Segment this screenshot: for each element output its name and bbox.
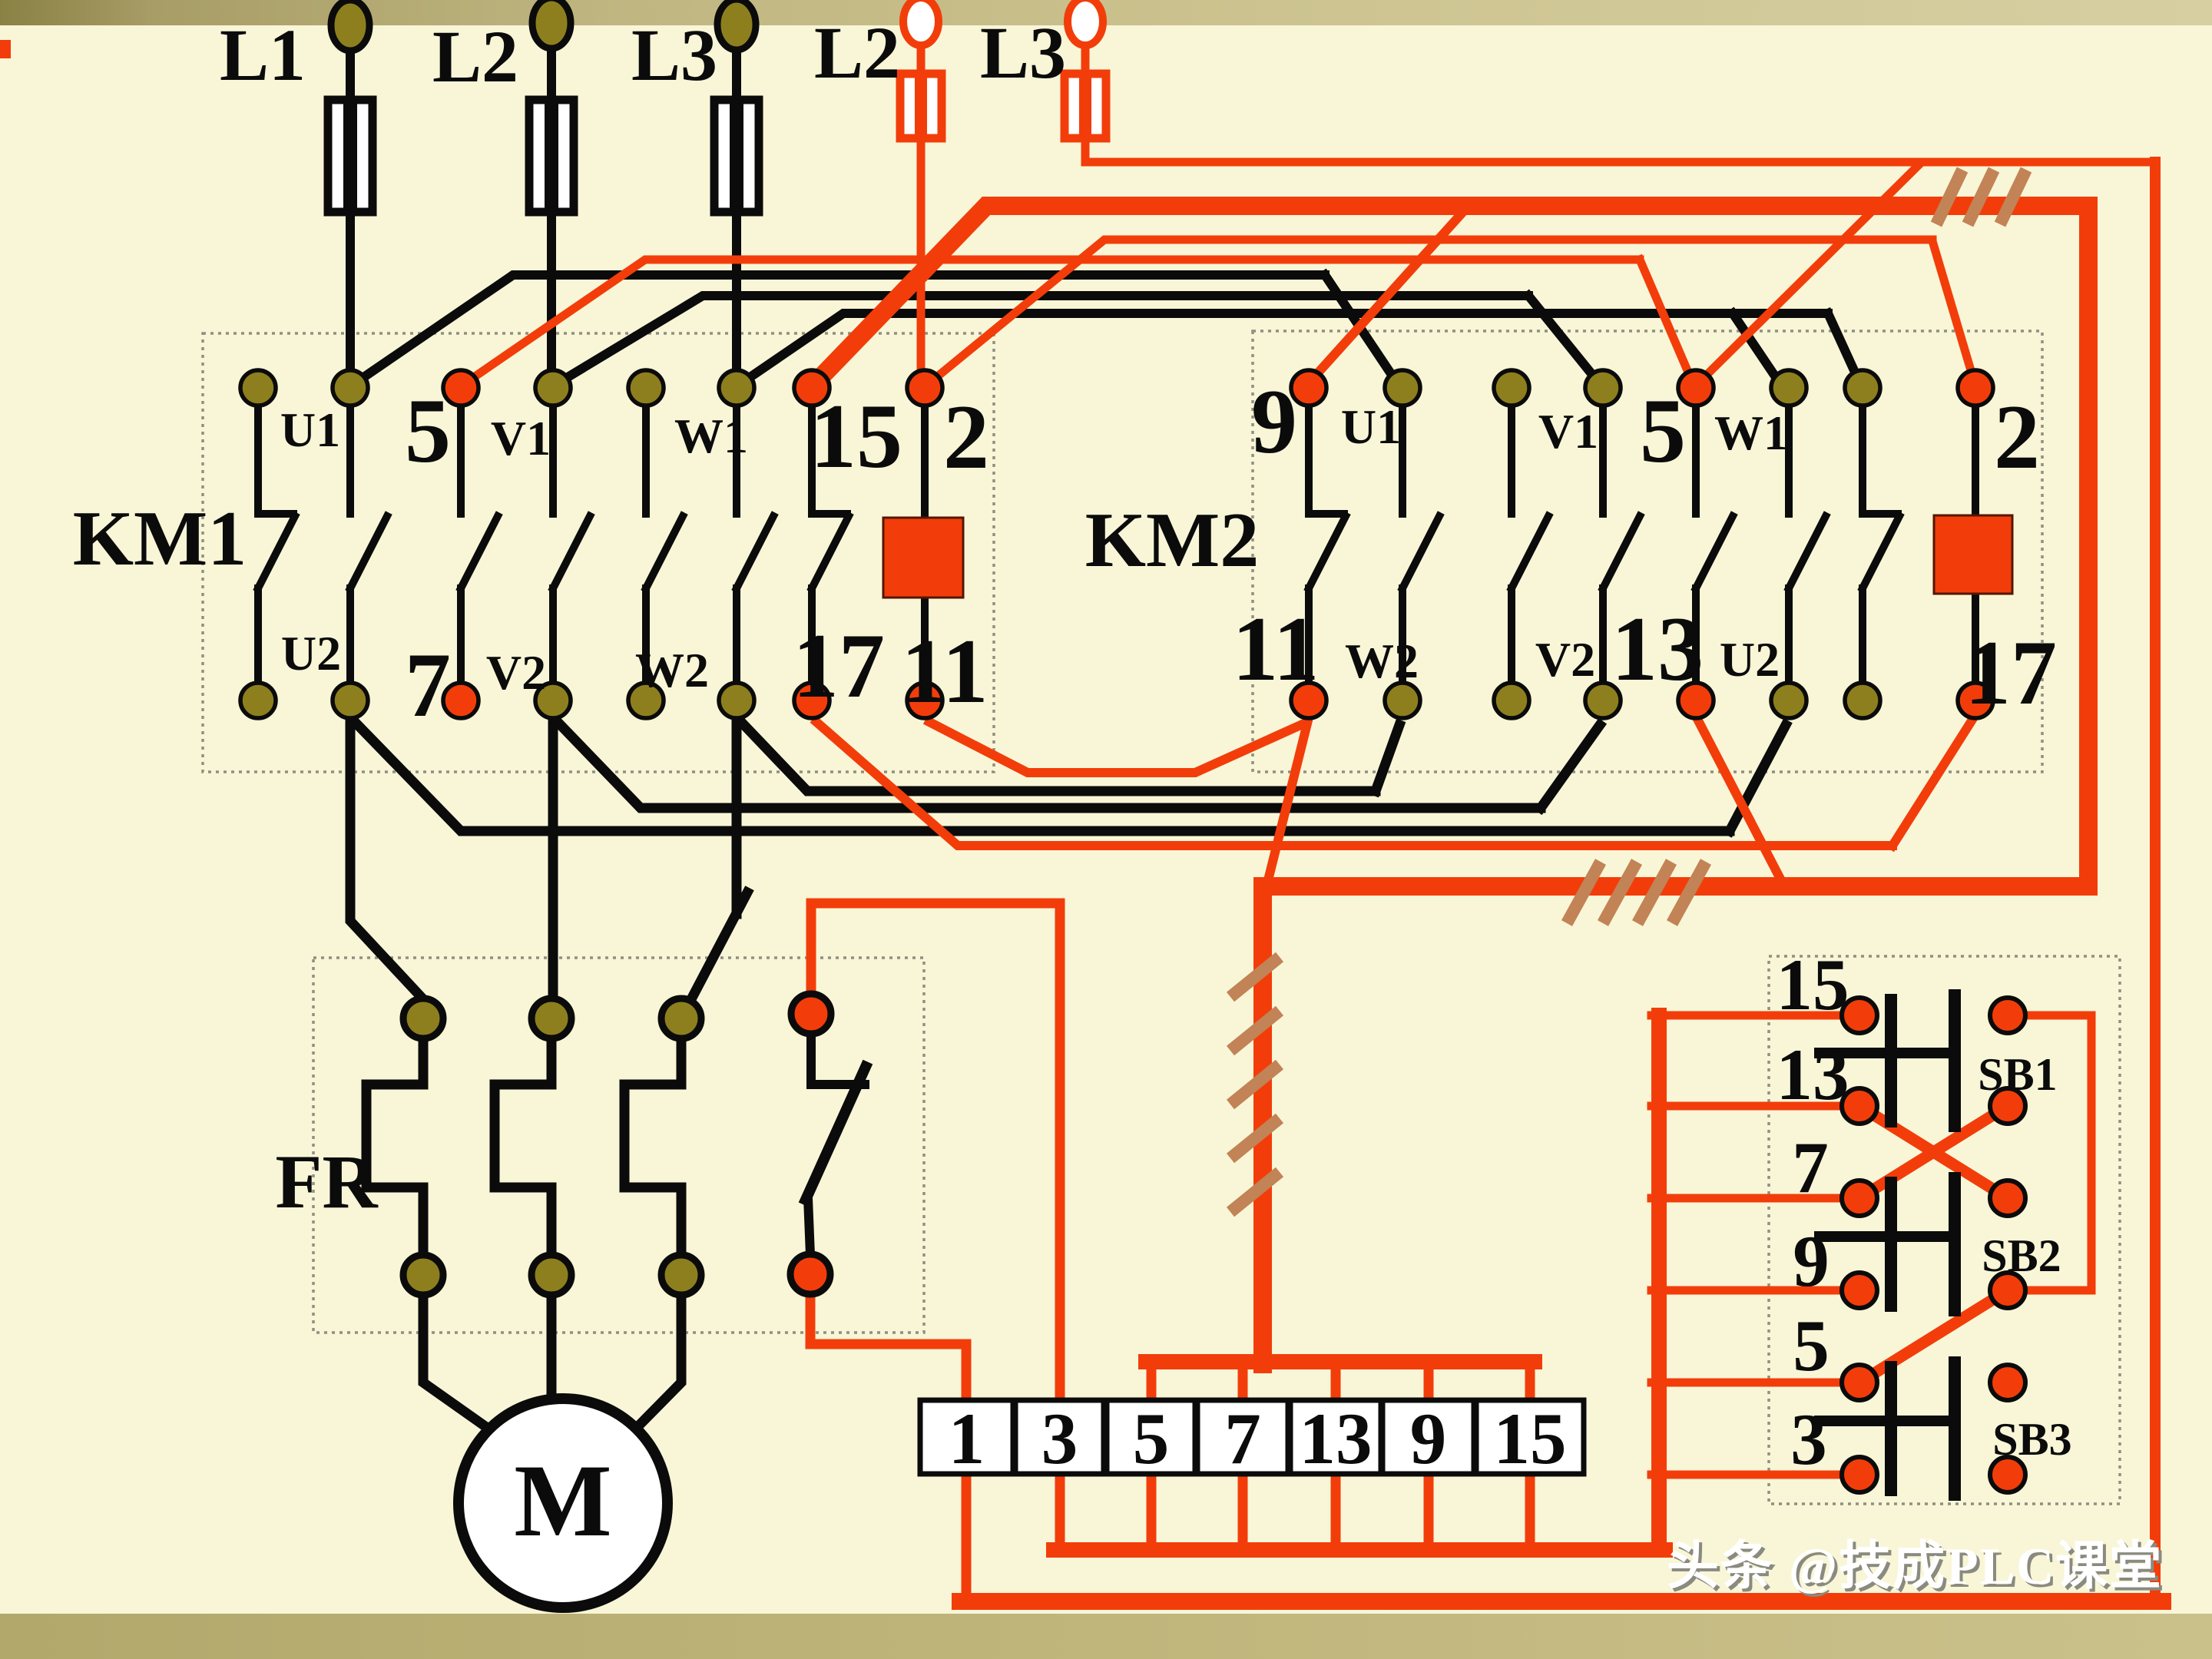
- svg-text:L2: L2: [814, 12, 900, 94]
- wire L1 phase down to fuse and U1: [346, 42, 355, 108]
- bundle header above terminal strip: [1146, 1354, 1535, 1369]
- contact pole KM1-2: [346, 408, 354, 514]
- svg-text:17: 17: [1965, 621, 2057, 724]
- hatch 5 marks on left bundle vertical: [1230, 957, 1280, 997]
- svg-text:SB3: SB3: [1992, 1414, 2071, 1465]
- svg-text:W1: W1: [1714, 406, 1788, 460]
- svg-text:2: 2: [1994, 386, 2040, 488]
- contact pole KM2-1: [1305, 408, 1313, 514]
- svg-text:KM1: KM1: [73, 495, 247, 582]
- wire SB feeder bus vertical: [1651, 1015, 1667, 1548]
- svg-text:13: 13: [1611, 598, 1704, 700]
- bundle stub to box 15: [1525, 1369, 1535, 1400]
- svg-text:SB1: SB1: [1978, 1049, 2057, 1100]
- wire FR-NC bottom to terminal 1: [810, 1294, 966, 1400]
- fuse FU L2: [529, 100, 574, 212]
- svg-text:KM2: KM2: [1085, 497, 1260, 584]
- strip box 13: [1290, 1400, 1381, 1474]
- wire feeder to SB 7: [1651, 1194, 1859, 1203]
- wire W1 to KM2 W1 top bus: [741, 313, 1828, 383]
- svg-text:V1: V1: [1538, 404, 1598, 459]
- contact pole KM2-3: [1508, 408, 1515, 514]
- svg-text:9: 9: [1793, 1220, 1830, 1302]
- KM1 terminals top row: [240, 370, 276, 406]
- contact pole KM2-5: [1692, 408, 1700, 514]
- wire L3 right-side vertical down: [2150, 162, 2161, 1601]
- wire L3 phase down to fuse and W1: [732, 42, 741, 108]
- contact pole KM1-4: [549, 408, 557, 514]
- top control terminals red L2 L3: [903, 0, 939, 45]
- svg-text:7: 7: [1792, 1127, 1829, 1208]
- contact pole KM1-6: [733, 408, 740, 514]
- motor M circle: [459, 1399, 667, 1608]
- wire KM2-9 diagonal to thick bundle: [1306, 206, 1469, 386]
- svg-text:3: 3: [1041, 1398, 1078, 1479]
- coil KM2 square: [1934, 515, 2012, 594]
- wire V2 down to FR pole2: [548, 719, 558, 1000]
- wire feeder to SB 5: [1651, 1379, 1859, 1387]
- wire W2 to KM2 W2 bottom bus: [741, 722, 1376, 791]
- contact pole KM2-7: [1859, 408, 1866, 514]
- svg-text:9: 9: [1410, 1398, 1447, 1479]
- bundle stub to box 9: [1424, 1369, 1434, 1400]
- wire 11 bus KM1-11 to KM2-11: [929, 722, 1306, 773]
- hatch 3-wire marks on top bundle: [1936, 170, 1962, 224]
- svg-text:5: 5: [1640, 379, 1686, 482]
- wire feeder to SB 3: [1651, 1471, 1859, 1479]
- contact pole KM1-7: [808, 408, 816, 514]
- svg-text:L3: L3: [980, 12, 1066, 94]
- wire V1 to KM2 V1 top bus: [558, 296, 1528, 383]
- SB button bars: [1885, 1361, 1897, 1496]
- FR heater element 2: [495, 1037, 551, 1255]
- wire W2 down to FR pole3: [732, 719, 742, 914]
- svg-text:5: 5: [405, 379, 451, 482]
- svg-text:W2: W2: [1345, 634, 1419, 688]
- strip box 1: [920, 1400, 1013, 1474]
- coil feed KM2: [1972, 408, 1979, 515]
- svg-text:U1: U1: [280, 402, 340, 457]
- SB button-box dotted box: [1769, 956, 2120, 1504]
- wire SB right loop 15 to 9: [2008, 1015, 2091, 1290]
- svg-text:M: M: [514, 1444, 611, 1558]
- svg-text:7: 7: [405, 634, 451, 736]
- wire feeder to SB 15: [1651, 1012, 1859, 1020]
- hatch 4-wire marks on mid bundle: [1567, 862, 1601, 923]
- motor lead W: [627, 1294, 681, 1438]
- svg-text:2: 2: [943, 386, 989, 488]
- KM2 terminals top row: [1291, 370, 1326, 406]
- wire KM2-11 diagonal to bundle elbow: [1267, 724, 1307, 883]
- svg-text:1: 1: [949, 1398, 985, 1479]
- svg-text:L1: L1: [220, 14, 306, 96]
- strip box 5: [1107, 1400, 1195, 1474]
- wire KM1-2 diagonal to bus 2: [926, 240, 1932, 386]
- KM1 contactor dotted box: [203, 333, 994, 772]
- wire U2 to KM2 U2 bottom bus: [355, 722, 1730, 831]
- svg-text:9: 9: [1251, 370, 1297, 472]
- wire SB cross 13-7 a: [1859, 1106, 2008, 1198]
- svg-text:V2: V2: [1535, 632, 1595, 687]
- stub below box 15: [1525, 1474, 1535, 1545]
- wire below box 1 to bottom bundle: [962, 1474, 972, 1598]
- svg-text:U2: U2: [1720, 632, 1780, 687]
- wire red L3 phase to bus and right side: [1081, 38, 1090, 77]
- wire L2 phase down to fuse and V1: [547, 40, 556, 108]
- svg-text:17: 17: [793, 614, 885, 717]
- contact pole KM2-2: [1399, 408, 1406, 514]
- fuse FU L1: [328, 100, 373, 212]
- svg-text:13: 13: [1300, 1398, 1373, 1479]
- SB button bars: [1885, 994, 1897, 1128]
- fuse red FU L2 control: [900, 74, 942, 138]
- contact pole KM1-3: [457, 408, 465, 514]
- SB terminals: [1842, 998, 1877, 1033]
- bundle 15 thick: KM1-15 up, across top, down right, across mid, down left: [814, 206, 2088, 1364]
- wire U2 down to FR pole1: [350, 719, 424, 1000]
- svg-text:头条 @技成PLC课堂: 头条 @技成PLC课堂: [1667, 1537, 2163, 1595]
- coil feed KM1: [921, 408, 929, 518]
- svg-text:3: 3: [1790, 1399, 1827, 1480]
- svg-text:FR: FR: [275, 1139, 379, 1224]
- decorative corner mark: [0, 40, 11, 58]
- KM2 contactor dotted box: [1253, 331, 2042, 772]
- contact pole KM2-4: [1599, 408, 1607, 514]
- svg-text:L2: L2: [432, 15, 518, 98]
- coil KM1 square: [883, 518, 963, 598]
- stub below box 13: [1331, 1474, 1341, 1545]
- strip box 3: [1015, 1400, 1104, 1474]
- KM2 terminals bottom row: [1291, 683, 1326, 718]
- svg-text:7: 7: [1224, 1398, 1261, 1479]
- wire feeder to SB 13: [1651, 1102, 1859, 1111]
- wire U1 to KM2 U1 top bus: [355, 275, 1325, 383]
- svg-text:L3: L3: [631, 14, 717, 96]
- contact pole KM1-5: [642, 408, 650, 514]
- strip box 9: [1382, 1400, 1474, 1474]
- wire feeder to SB 9: [1651, 1286, 1859, 1295]
- KM1 terminals bottom row: [240, 683, 276, 718]
- wire SB cross 13-7 b: [1859, 1106, 2008, 1198]
- svg-text:W1: W1: [674, 409, 748, 463]
- svg-text:13: 13: [1777, 1034, 1849, 1115]
- svg-text:V1: V1: [491, 411, 551, 465]
- stub below box 9: [1424, 1474, 1434, 1545]
- bundle stub to box 5: [1147, 1369, 1157, 1400]
- svg-text:U1: U1: [1341, 399, 1401, 454]
- top supply terminals L1 L2 L3: [331, 0, 369, 51]
- motor lead V: [547, 1294, 557, 1409]
- top border band: [0, 0, 2212, 25]
- svg-text:11: 11: [1232, 598, 1319, 700]
- svg-text:15: 15: [1494, 1398, 1567, 1479]
- wire KM1-5 to bus 5: [464, 260, 1640, 384]
- svg-text:5: 5: [1133, 1398, 1170, 1479]
- FR thermal relay dotted box: [313, 958, 924, 1333]
- wire FR-NC top to riser: [811, 903, 1060, 1400]
- wire V2 to KM2 V2 bottom bus: [558, 722, 1541, 808]
- SB button bars: [1885, 1177, 1897, 1312]
- FR terminals top: [403, 998, 443, 1038]
- motor lead U: [423, 1294, 499, 1436]
- wire KM2-5 right diagonal to L3 bus: [1697, 164, 1920, 384]
- bundle stub to box 7: [1238, 1369, 1248, 1400]
- FR heater element 1: [366, 1037, 423, 1255]
- stub below box 5: [1147, 1474, 1157, 1545]
- svg-text:5: 5: [1793, 1305, 1830, 1386]
- svg-text:V2: V2: [486, 645, 546, 700]
- svg-text:W2: W2: [635, 643, 709, 697]
- wire red L2 phase down to fuse and KM1 terminal 2: [917, 38, 926, 77]
- svg-text:15: 15: [810, 385, 902, 487]
- svg-text:15: 15: [1777, 944, 1849, 1025]
- wire 17 bus KM1-17 to KM2-17: [816, 722, 1892, 846]
- bottom border band: [0, 1614, 2212, 1659]
- stub below box 7: [1238, 1474, 1248, 1545]
- bundle stub to box 13: [1331, 1369, 1341, 1400]
- strip box 15: [1476, 1400, 1584, 1474]
- FR heater element 3: [624, 1037, 681, 1255]
- bundle B bottom horizontal to right side: [960, 1593, 2163, 1610]
- fuse FU L3: [714, 100, 759, 212]
- bundle A horizontal to SB bus: [1054, 1542, 1665, 1558]
- svg-text:SB2: SB2: [1982, 1230, 2061, 1281]
- wire riser below box 3: [1055, 1474, 1065, 1545]
- svg-text:U2: U2: [281, 626, 341, 680]
- fuse red FU L3 control: [1065, 74, 1106, 138]
- contact pole KM1-1: [254, 408, 262, 514]
- FR NC contact pole: [811, 1033, 865, 1084]
- svg-text:11: 11: [901, 620, 988, 722]
- contact pole KM2-6: [1785, 408, 1793, 514]
- strip box 7: [1197, 1400, 1288, 1474]
- wire SB diagonal 9 to 5: [1859, 1290, 2008, 1382]
- wire KM2-13 diagonal to bundle: [1699, 722, 1783, 885]
- FR terminals bottom: [403, 1255, 443, 1295]
